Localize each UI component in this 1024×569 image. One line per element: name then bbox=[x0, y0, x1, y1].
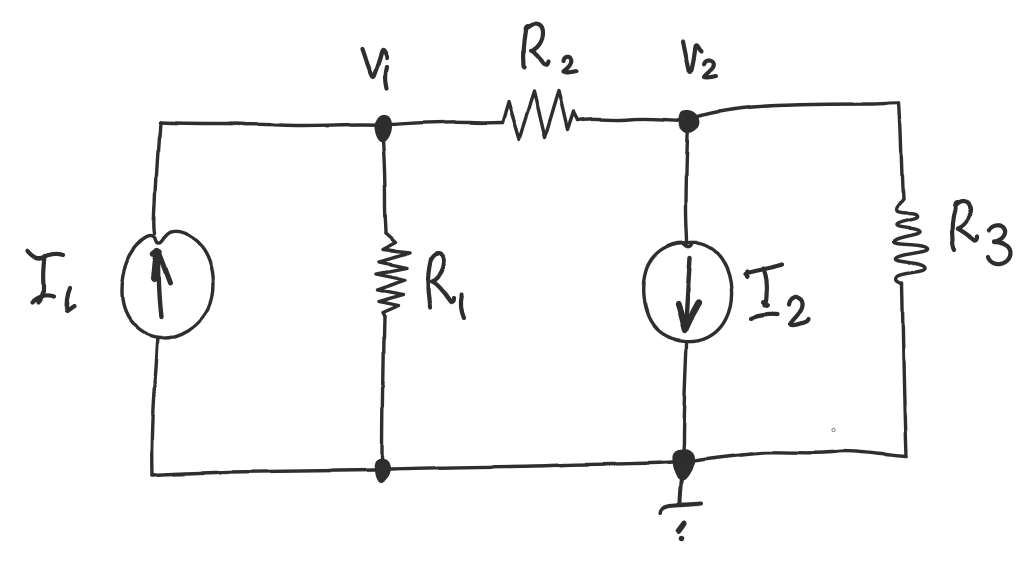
stray mark bbox=[831, 428, 834, 431]
current source I1 bbox=[121, 231, 213, 338]
resistor R1 bbox=[376, 234, 410, 317]
wire V1 to R2 bbox=[383, 122, 502, 125]
wire bottom middle segment bbox=[391, 462, 672, 469]
wire bottom left segment bbox=[152, 470, 374, 475]
wire V1 down to R1 bbox=[382, 128, 386, 234]
ground symbol bbox=[660, 478, 701, 541]
label R1 bbox=[428, 254, 464, 318]
wire left vertical upper bbox=[154, 123, 160, 234]
label V2 bbox=[682, 42, 716, 78]
label R3 bbox=[952, 202, 1011, 265]
node V1 bbox=[374, 115, 392, 142]
wire V2 to top right corner bbox=[689, 103, 899, 119]
label R2 bbox=[523, 24, 576, 73]
wire I2 to ground node bbox=[683, 344, 687, 457]
wire right vertical lower bbox=[902, 283, 906, 457]
resistor R2 bbox=[502, 91, 578, 139]
ground node junction bbox=[672, 449, 695, 481]
label I2 bbox=[745, 265, 809, 326]
label I1 bbox=[28, 251, 74, 311]
node bottom below R1 bbox=[374, 459, 390, 483]
wire R1 down to bottom node bbox=[382, 317, 384, 459]
wire left vertical lower bbox=[152, 338, 158, 475]
wire right vertical upper bbox=[899, 103, 903, 199]
resistor R3 bbox=[894, 199, 928, 284]
wire V2 down to I2 bbox=[686, 122, 688, 242]
wire R2 to V2 bbox=[578, 118, 687, 120]
wire top left segment bbox=[160, 123, 381, 126]
node V2 bbox=[679, 110, 699, 133]
label V1 bbox=[362, 49, 387, 88]
current source I2 bbox=[643, 242, 732, 341]
wire bottom right segment bbox=[694, 452, 906, 461]
